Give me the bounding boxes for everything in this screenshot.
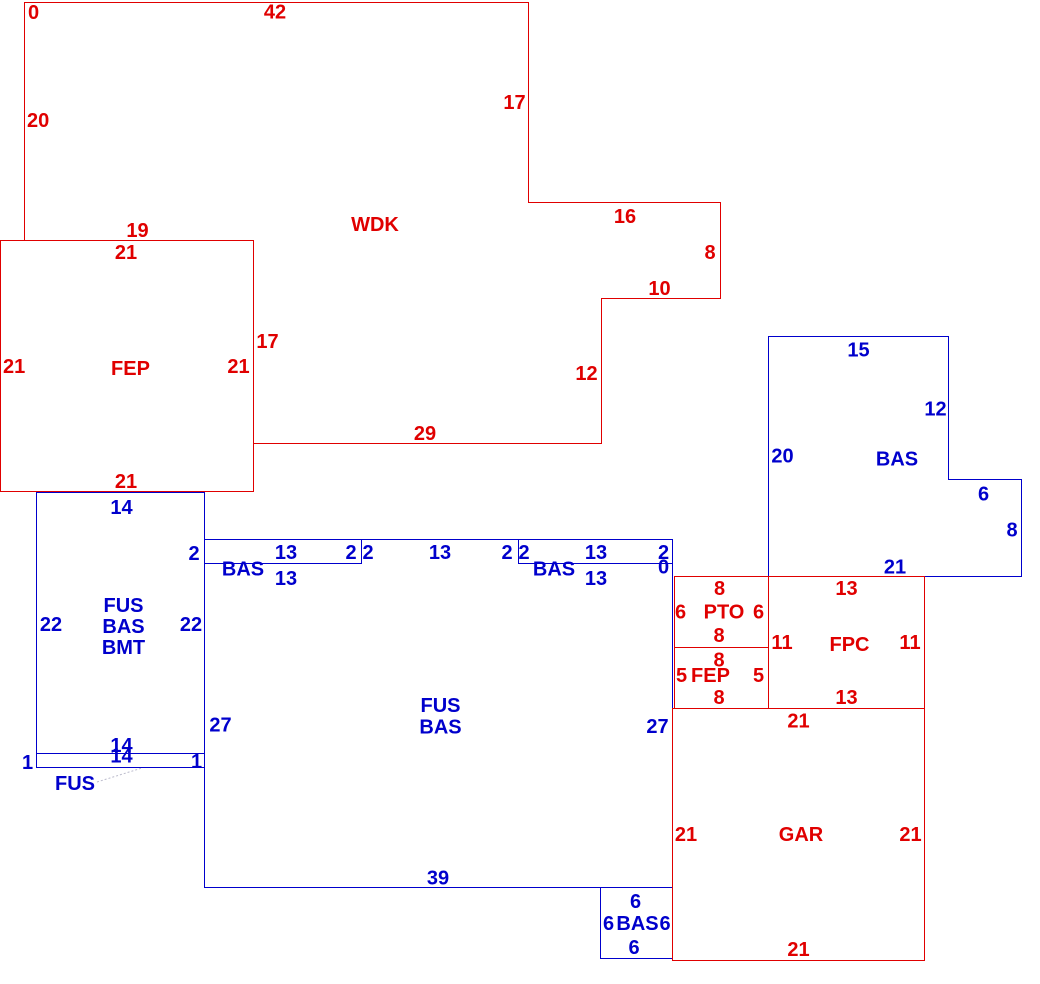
svg-text:13: 13 [585, 568, 607, 590]
svg-text:5: 5 [676, 665, 687, 687]
svg-text:6: 6 [630, 891, 641, 913]
svg-text:WDK: WDK [351, 214, 399, 236]
svg-text:1: 1 [22, 752, 33, 774]
svg-text:29: 29 [414, 423, 436, 445]
svg-text:8: 8 [713, 625, 724, 647]
svg-text:GAR: GAR [779, 824, 824, 846]
area BAS small bottom rectangle [601, 888, 673, 959]
svg-text:11: 11 [899, 632, 920, 654]
svg-text:2: 2 [362, 542, 373, 564]
area WDK outline [25, 3, 721, 444]
svg-text:22: 22 [40, 614, 62, 636]
svg-text:27: 27 [209, 715, 231, 737]
svg-text:BAS: BAS [222, 559, 264, 581]
connector FUS label leader line [97, 768, 142, 782]
svg-text:BAS: BAS [533, 559, 575, 581]
svg-text:2: 2 [188, 543, 199, 565]
svg-text:13: 13 [835, 578, 857, 600]
svg-text:8: 8 [713, 687, 724, 709]
svg-text:8: 8 [1006, 520, 1017, 542]
svg-text:15: 15 [847, 340, 869, 362]
svg-text:13: 13 [429, 542, 451, 564]
svg-text:42: 42 [264, 2, 286, 24]
area PTO rectangle [675, 577, 769, 648]
svg-text:6: 6 [659, 913, 670, 935]
svg-text:21: 21 [3, 356, 25, 378]
svg-text:BMT: BMT [102, 637, 145, 659]
svg-text:20: 20 [771, 446, 793, 468]
svg-text:FUS: FUS [104, 595, 144, 617]
svg-text:13: 13 [585, 542, 607, 564]
svg-text:20: 20 [27, 110, 49, 132]
svg-text:BAS: BAS [102, 616, 144, 638]
svg-text:21: 21 [115, 471, 137, 493]
svg-text:FEP: FEP [691, 665, 730, 687]
svg-text:21: 21 [899, 824, 921, 846]
svg-text:13: 13 [275, 568, 297, 590]
area FEP main rectangle [1, 241, 254, 492]
svg-text:FPC: FPC [830, 634, 870, 656]
area FUS thin strip [37, 754, 205, 768]
svg-text:0: 0 [28, 2, 39, 24]
svg-text:FUS: FUS [421, 695, 461, 717]
svg-text:21: 21 [675, 824, 697, 846]
svg-text:19: 19 [126, 220, 148, 242]
svg-text:PTO: PTO [704, 602, 745, 624]
svg-text:17: 17 [503, 92, 525, 114]
area FPC rectangle [769, 577, 925, 709]
svg-text:21: 21 [787, 939, 809, 961]
svg-text:21: 21 [227, 356, 249, 378]
svg-text:21: 21 [884, 557, 906, 579]
area BAS strip 1 bottom and right [205, 540, 362, 564]
area FUS/BAS main rectangle [205, 540, 673, 888]
svg-text:FUS: FUS [55, 773, 95, 795]
svg-text:8: 8 [704, 242, 715, 264]
svg-text:6: 6 [603, 913, 614, 935]
svg-text:BAS: BAS [419, 717, 461, 739]
svg-text:13: 13 [835, 687, 857, 709]
area FEP small rectangle [675, 648, 769, 709]
svg-text:8: 8 [714, 578, 725, 600]
svg-text:14: 14 [110, 746, 133, 768]
svg-text:39: 39 [427, 868, 449, 890]
area GAR rectangle [673, 709, 925, 961]
svg-text:2: 2 [518, 542, 529, 564]
svg-text:6: 6 [628, 937, 639, 959]
svg-text:BAS: BAS [616, 913, 658, 935]
area BAS upper-right outline [769, 337, 1022, 577]
svg-text:21: 21 [115, 242, 137, 264]
svg-text:12: 12 [575, 363, 597, 385]
svg-text:FEP: FEP [111, 358, 150, 380]
svg-text:22: 22 [180, 614, 202, 636]
svg-text:11: 11 [771, 632, 792, 654]
svg-text:6: 6 [978, 484, 989, 506]
svg-text:12: 12 [924, 399, 946, 421]
svg-text:6: 6 [753, 602, 764, 624]
svg-text:6: 6 [675, 602, 686, 624]
svg-text:1: 1 [191, 751, 202, 773]
svg-text:16: 16 [614, 206, 636, 228]
svg-text:0: 0 [658, 557, 669, 579]
area BAS strip 2 bottom and left [519, 540, 673, 564]
svg-text:21: 21 [787, 711, 809, 733]
svg-text:BAS: BAS [876, 449, 918, 471]
svg-text:13: 13 [275, 542, 297, 564]
svg-text:5: 5 [753, 665, 764, 687]
svg-text:14: 14 [110, 497, 133, 519]
svg-text:27: 27 [646, 716, 668, 738]
area FUS/BAS/BMT left rectangle [37, 493, 205, 754]
svg-text:2: 2 [345, 542, 356, 564]
svg-text:2: 2 [501, 542, 512, 564]
svg-text:17: 17 [256, 331, 278, 353]
svg-text:10: 10 [648, 278, 670, 300]
